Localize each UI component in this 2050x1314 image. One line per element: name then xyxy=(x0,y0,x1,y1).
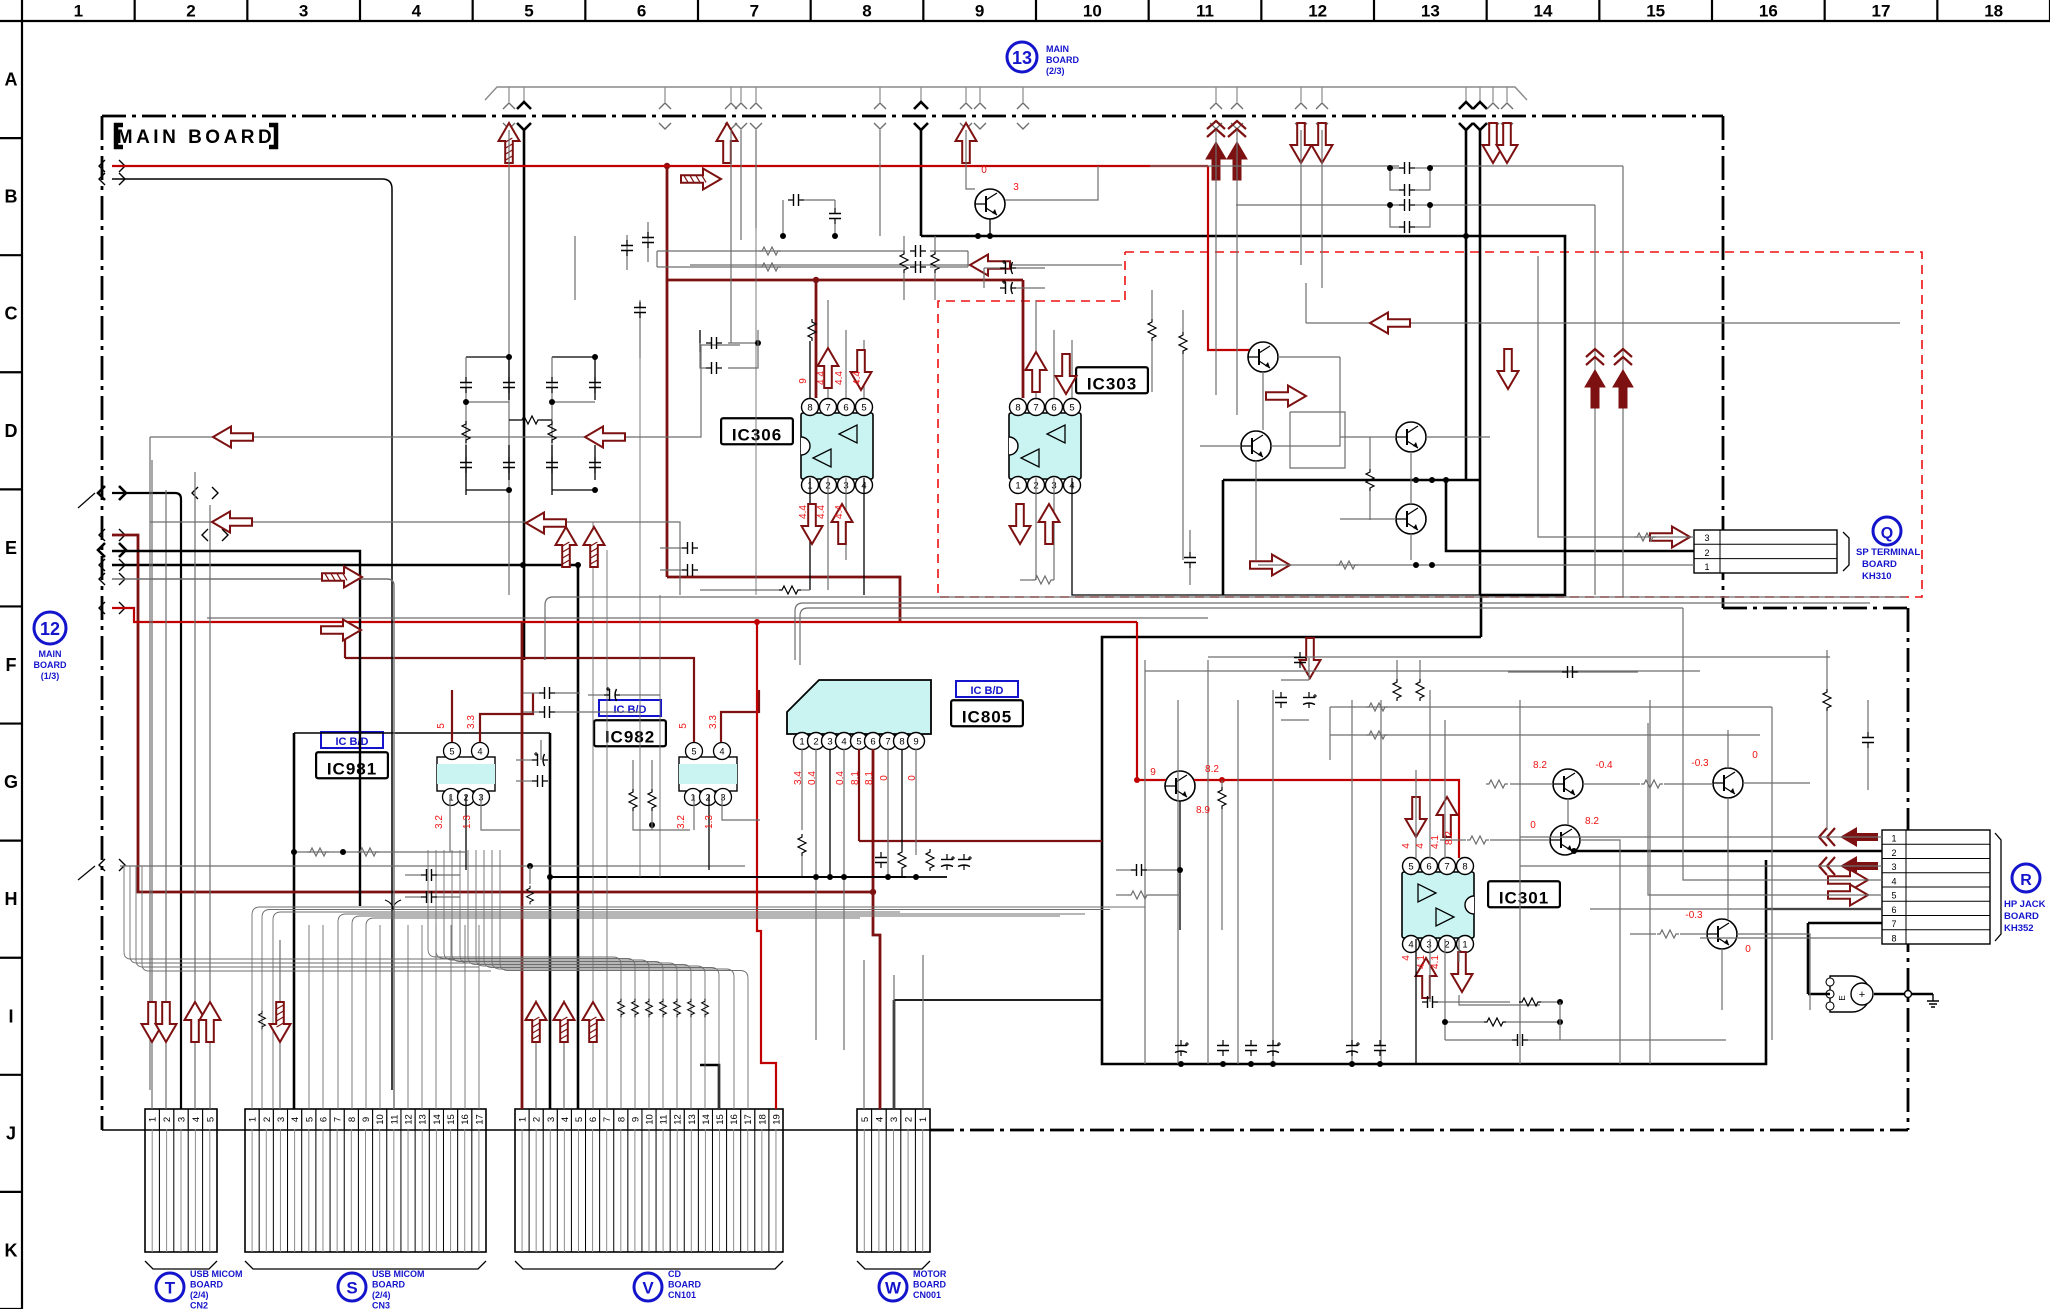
motor M xyxy=(1830,976,1870,1012)
svg-text:K: K xyxy=(5,1240,18,1260)
svg-text:9: 9 xyxy=(798,378,809,384)
svg-text:5: 5 xyxy=(1069,403,1074,414)
IC805 label xyxy=(956,681,1018,697)
svg-text:CN3: CN3 xyxy=(372,1301,390,1310)
gray vertical x392 xyxy=(112,179,392,1090)
ground xyxy=(1874,993,1908,996)
svg-text:H: H xyxy=(5,889,18,909)
svg-text:MOTOR: MOTOR xyxy=(913,1269,947,1279)
svg-text:8.2: 8.2 xyxy=(1585,816,1599,827)
wire T pin3 black xyxy=(112,493,181,1109)
svg-text:1: 1 xyxy=(518,1117,529,1122)
caps pairs col11 B row xyxy=(1399,162,1415,174)
svg-text:14: 14 xyxy=(701,1114,712,1125)
vertical links rows E-H xyxy=(606,550,608,940)
wire maroon long y892 xyxy=(112,535,873,892)
svg-text:IC B/D: IC B/D xyxy=(614,704,647,716)
svg-text:6: 6 xyxy=(1891,905,1896,915)
gray verticals from top connector xyxy=(508,130,510,595)
svg-text:5: 5 xyxy=(691,747,696,757)
svg-text:MAIN BOARD: MAIN BOARD xyxy=(117,127,276,148)
svg-text:16: 16 xyxy=(1759,2,1778,21)
svg-text:4.1: 4.1 xyxy=(1430,835,1441,849)
svg-text:17: 17 xyxy=(1872,2,1891,21)
connector R HP jack xyxy=(1882,830,1990,944)
gray long vertical x150 xyxy=(149,437,151,1090)
wire R row7 black xyxy=(1808,922,1882,925)
bus B (y957-971) feeding V connector xyxy=(428,850,621,1109)
IC303 label xyxy=(1076,367,1148,393)
svg-text:BOARD: BOARD xyxy=(34,660,67,670)
wire VCC black bus xyxy=(112,565,578,1109)
wire maroon IC805 pin6 xyxy=(872,749,875,892)
svg-text:3: 3 xyxy=(1704,533,1709,543)
svg-text:5: 5 xyxy=(1891,891,1896,901)
svg-text:13: 13 xyxy=(1012,48,1032,68)
svg-text:IC982: IC982 xyxy=(605,727,655,746)
svg-text:2: 2 xyxy=(1891,848,1896,858)
svg-text:4.1: 4.1 xyxy=(1430,955,1441,969)
IC306 label xyxy=(721,418,793,444)
svg-text:4.4: 4.4 xyxy=(798,505,809,519)
transistor B9 wiring xyxy=(966,130,975,189)
op-amp IC303 xyxy=(1009,413,1081,479)
caps column x429 xyxy=(421,869,437,881)
bus to S connector xyxy=(252,907,1145,1109)
svg-text:8: 8 xyxy=(347,1117,358,1122)
svg-text:IC306: IC306 xyxy=(732,425,782,444)
svg-text:8.2: 8.2 xyxy=(1205,764,1219,775)
wire black top 1466 xyxy=(1465,130,1468,480)
wire S pin4 black xyxy=(293,733,296,1109)
svg-text:-0.4: -0.4 xyxy=(1595,760,1613,771)
svg-text:1.3: 1.3 xyxy=(462,815,473,829)
wire maroon IC303 pin8 xyxy=(1022,280,1025,398)
wire gray y595 xyxy=(545,597,1906,660)
svg-text:9: 9 xyxy=(630,1117,641,1122)
svg-text:(1/3): (1/3) xyxy=(41,671,60,681)
svg-text:(2/4): (2/4) xyxy=(190,1290,209,1300)
wire maroon IC982 pin5 xyxy=(344,622,346,658)
svg-text:3.2: 3.2 xyxy=(676,815,687,829)
svg-text:2: 2 xyxy=(186,2,195,21)
svg-text:1: 1 xyxy=(448,793,453,803)
caps col7-8 B row xyxy=(782,200,784,236)
caps left of IC981 xyxy=(532,752,548,766)
V pin extra verticals xyxy=(592,940,594,1109)
svg-text:E: E xyxy=(5,538,17,558)
gray verticals in amp block xyxy=(1144,660,1146,1064)
caps pair col8 y258/278 pol xyxy=(1000,260,1016,274)
main board outline xyxy=(102,115,1723,118)
svg-text:8: 8 xyxy=(1015,403,1020,414)
wire gray y579 xyxy=(112,579,394,1109)
transistor xyxy=(1248,342,1278,372)
svg-text:4: 4 xyxy=(1408,940,1413,951)
connector S label xyxy=(338,1273,366,1301)
svg-text:T: T xyxy=(165,1279,176,1298)
svg-text:1.3: 1.3 xyxy=(704,815,715,829)
wire red drop x1208 xyxy=(1208,166,1249,350)
svg-text:KH310: KH310 xyxy=(1862,571,1892,582)
capacitor filter block xyxy=(466,356,509,358)
svg-text:17: 17 xyxy=(743,1114,754,1125)
arrows above V xyxy=(526,1002,547,1042)
connector S CN3 xyxy=(245,1109,486,1252)
svg-text:1: 1 xyxy=(74,2,83,21)
svg-text:IC B/D: IC B/D xyxy=(971,685,1004,697)
top connector pins xyxy=(508,87,510,102)
wire maroon to y622 xyxy=(667,577,900,622)
svg-text:16: 16 xyxy=(729,1114,740,1125)
wire gray y866 from left chevron xyxy=(120,865,745,867)
svg-text:11: 11 xyxy=(389,1115,400,1125)
svg-text:1: 1 xyxy=(1891,834,1896,844)
svg-text:6: 6 xyxy=(318,1117,329,1122)
svg-text:5: 5 xyxy=(861,403,866,414)
transistor xyxy=(1553,769,1583,799)
Q1 feed xyxy=(1258,564,1694,566)
svg-text:4: 4 xyxy=(719,747,724,757)
svg-text:BOARD: BOARD xyxy=(372,1280,405,1290)
wire maroon V pin1 xyxy=(521,660,524,1109)
wire black from top pin 524 xyxy=(523,130,526,660)
svg-text:9: 9 xyxy=(361,1117,372,1122)
wire V pin3 black xyxy=(549,733,552,1109)
connector 13 to main board 2/3 xyxy=(485,87,1527,100)
svg-text:5: 5 xyxy=(678,723,689,729)
gray horizontals upper amp area xyxy=(1208,656,1830,658)
svg-text:8: 8 xyxy=(899,737,904,748)
svg-text:3: 3 xyxy=(276,1117,287,1122)
svg-text:14: 14 xyxy=(432,1114,443,1125)
svg-text:6: 6 xyxy=(1426,862,1431,873)
svg-text:1: 1 xyxy=(1015,481,1020,492)
svg-text:4.4: 4.4 xyxy=(852,371,863,385)
resistor row above IC306 xyxy=(808,319,816,341)
B row center caps net xyxy=(639,300,641,358)
svg-text:5: 5 xyxy=(449,747,454,757)
IC982 bottom wires xyxy=(693,795,695,830)
wire black top 1480 xyxy=(1479,130,1482,595)
svg-text:4.4: 4.4 xyxy=(816,371,827,385)
signal arrows below top connector xyxy=(499,123,520,163)
op-amp IC306 xyxy=(801,413,873,479)
caps above IC982 xyxy=(539,687,555,699)
connector W label xyxy=(879,1273,907,1301)
transistor xyxy=(1396,504,1426,534)
svg-text:2: 2 xyxy=(813,737,818,748)
transistor xyxy=(1550,825,1580,855)
svg-text:IC303: IC303 xyxy=(1087,374,1137,393)
svg-text:HP JACK: HP JACK xyxy=(2004,899,2046,910)
svg-text:-0.3: -0.3 xyxy=(1685,910,1703,921)
svg-text:10: 10 xyxy=(645,1114,656,1125)
connector T label xyxy=(156,1273,184,1301)
svg-text:4.4: 4.4 xyxy=(834,505,845,519)
wire black bus y236 xyxy=(921,236,1565,637)
svg-text:1: 1 xyxy=(1704,562,1709,572)
svg-text:4: 4 xyxy=(290,1117,301,1122)
MAIN BOARD title xyxy=(116,125,123,147)
solid arrows wires going down xyxy=(1594,392,1596,595)
svg-text:3.4: 3.4 xyxy=(793,771,804,785)
Q3 feed xyxy=(1538,256,1694,537)
svg-text:17: 17 xyxy=(474,1114,485,1125)
svg-text:0: 0 xyxy=(1745,944,1751,955)
svg-text:Q: Q xyxy=(1881,525,1893,542)
svg-text:12: 12 xyxy=(404,1114,415,1125)
svg-text:3: 3 xyxy=(177,1117,188,1122)
wire maroon W pin4 xyxy=(873,892,880,1109)
resistors under IC805 pins xyxy=(801,749,803,830)
wire E row gray xyxy=(150,522,680,595)
IC301 pin verticals xyxy=(1415,770,1417,858)
wire red drop to Q1 transistor xyxy=(1137,622,1166,780)
svg-text:8: 8 xyxy=(1891,933,1896,943)
svg-text:18: 18 xyxy=(1984,2,2003,21)
svg-text:CD: CD xyxy=(668,1269,681,1279)
wire V pin15 black xyxy=(700,1065,719,1109)
caps on ground bus xyxy=(1175,1040,1189,1056)
svg-text:0: 0 xyxy=(879,775,890,781)
svg-text:2: 2 xyxy=(904,1117,915,1122)
svg-text:6: 6 xyxy=(637,2,646,21)
gray line y323 xyxy=(1305,283,1307,323)
transistor xyxy=(1241,431,1271,461)
svg-text:4: 4 xyxy=(1401,955,1412,961)
svg-text:E: E xyxy=(1838,995,1847,1000)
svg-text:4.4: 4.4 xyxy=(834,371,845,385)
svg-text:BOARD: BOARD xyxy=(2004,911,2039,922)
svg-text:4: 4 xyxy=(1401,843,1412,849)
wire maroon y841 xyxy=(859,840,1102,842)
caps res under IC301 xyxy=(1422,996,1438,1008)
wire maroon IC981 pin4 xyxy=(480,693,533,742)
res caps col16 xyxy=(1823,689,1831,711)
wire red rail y622 xyxy=(112,608,1137,622)
svg-text:1: 1 xyxy=(248,1117,259,1122)
svg-text:7: 7 xyxy=(1891,919,1896,929)
resistor pair between blocks xyxy=(519,416,541,424)
brace junction xyxy=(385,900,401,910)
W gray pins xyxy=(863,960,865,1109)
svg-text:9: 9 xyxy=(913,737,918,748)
svg-text:2: 2 xyxy=(262,1117,273,1122)
caps top right pair wiring xyxy=(1150,165,1399,167)
svg-text:W: W xyxy=(885,1279,902,1298)
regulator IC982 xyxy=(679,757,737,791)
svg-text:1: 1 xyxy=(1462,940,1467,951)
svg-text:(2/4): (2/4) xyxy=(372,1290,391,1300)
power amp IC805 xyxy=(787,680,931,734)
svg-text:G: G xyxy=(4,772,18,792)
wire D row gray xyxy=(150,345,740,437)
svg-text:BOARD: BOARD xyxy=(913,1280,946,1290)
svg-text:3: 3 xyxy=(827,737,832,748)
wire red main rail y166 xyxy=(112,165,1208,167)
svg-text:3: 3 xyxy=(299,2,308,21)
svg-text:8: 8 xyxy=(1462,862,1467,873)
svg-text:I: I xyxy=(8,1006,13,1026)
regulator IC981 xyxy=(437,757,495,791)
svg-text:13: 13 xyxy=(1421,2,1440,21)
svg-text:0: 0 xyxy=(1530,820,1536,831)
caps x1125 row H xyxy=(1131,864,1147,876)
wire maroon IC981 pin5 xyxy=(451,690,453,742)
svg-text:F: F xyxy=(6,655,17,675)
resistors x630-660 under IC805 xyxy=(629,789,637,811)
svg-text:0.4: 0.4 xyxy=(807,771,818,785)
svg-text:R: R xyxy=(2020,872,2032,889)
svg-text:7: 7 xyxy=(333,1117,344,1122)
wire gray R row3 xyxy=(1520,865,1882,867)
wire maroon supply from x667 xyxy=(666,166,669,577)
svg-text:5: 5 xyxy=(436,723,447,729)
svg-text:13: 13 xyxy=(687,1114,698,1125)
cap row B col8-9 y258-297 xyxy=(657,250,905,252)
IC982 label xyxy=(599,700,661,716)
svg-text:2: 2 xyxy=(1704,548,1709,558)
center caps y300 xyxy=(626,235,628,270)
svg-text:6: 6 xyxy=(1051,403,1056,414)
motor feed wire xyxy=(1808,993,1830,996)
svg-text:3: 3 xyxy=(1891,862,1896,872)
svg-text:12: 12 xyxy=(1308,2,1327,21)
svg-text:15: 15 xyxy=(446,1114,457,1125)
connector W CN001 xyxy=(857,1109,930,1252)
svg-text:8: 8 xyxy=(862,2,871,21)
wire red V pin19 xyxy=(757,622,776,1109)
wire gray y608 long xyxy=(207,617,1208,619)
svg-text:10: 10 xyxy=(1083,2,1102,21)
svg-text:2: 2 xyxy=(532,1117,543,1122)
svg-text:3.2: 3.2 xyxy=(434,815,445,829)
res pair col 13 in amp xyxy=(1393,679,1401,701)
svg-text:7: 7 xyxy=(1033,403,1038,414)
wire gray R row1 xyxy=(1520,836,1882,838)
svg-text:D: D xyxy=(5,421,18,441)
caps near IC805 left xyxy=(544,689,546,691)
svg-text:IC981: IC981 xyxy=(327,759,377,778)
wire amp block frame xyxy=(1102,637,1766,1064)
wire R row6 black xyxy=(1766,908,1882,910)
svg-text:8.9: 8.9 xyxy=(1196,805,1210,816)
wire gray R row6 xyxy=(1590,908,1882,910)
svg-text:3.3: 3.3 xyxy=(708,715,719,729)
svg-text:7: 7 xyxy=(825,403,830,414)
IC306 bottom pin wires xyxy=(809,478,811,590)
upper-right transistor pair wiring xyxy=(1510,783,1553,785)
svg-text:11: 11 xyxy=(659,1115,670,1125)
svg-text:7: 7 xyxy=(750,2,759,21)
svg-text:4.4: 4.4 xyxy=(816,505,827,519)
transistor 9/8.2 emitter xyxy=(1179,801,1181,930)
svg-text:7: 7 xyxy=(602,1117,613,1122)
svg-text:2: 2 xyxy=(705,793,710,803)
svg-text:MAIN: MAIN xyxy=(39,649,62,659)
svg-text:4: 4 xyxy=(560,1117,571,1122)
gray feed T pins xyxy=(151,460,153,1109)
svg-text:IC301: IC301 xyxy=(1499,888,1549,907)
svg-text:S: S xyxy=(346,1279,357,1298)
svg-text:BOARD: BOARD xyxy=(1046,55,1079,65)
svg-text:4: 4 xyxy=(841,737,846,748)
wire maroon drop x1216 xyxy=(1215,130,1217,395)
svg-text:V: V xyxy=(642,1279,654,1298)
svg-text:3: 3 xyxy=(1426,940,1431,951)
HP jack signal arrows xyxy=(1819,827,1878,847)
svg-text:4: 4 xyxy=(477,747,482,757)
connector V CN101 xyxy=(515,1109,783,1252)
svg-text:CN101: CN101 xyxy=(668,1290,696,1300)
connector T CN2 xyxy=(145,1109,217,1252)
svg-text:5: 5 xyxy=(205,1117,216,1122)
svg-text:9: 9 xyxy=(975,2,984,21)
transistor xyxy=(1713,768,1743,798)
svg-text:IC805: IC805 xyxy=(962,707,1012,726)
svg-text:8: 8 xyxy=(616,1117,627,1122)
svg-text:4: 4 xyxy=(874,1117,885,1122)
bus B left feeders xyxy=(124,866,455,959)
gray loop rect near IC303 transistors xyxy=(1290,412,1345,468)
svg-text:BOARD: BOARD xyxy=(190,1280,223,1290)
wire black top 921 xyxy=(920,130,923,236)
svg-text:4: 4 xyxy=(1891,876,1896,886)
arrow above S pin3 xyxy=(270,1002,291,1042)
svg-text:BOARD: BOARD xyxy=(1862,559,1897,570)
svg-text:BOARD: BOARD xyxy=(668,1280,701,1290)
svg-text:0: 0 xyxy=(981,165,987,176)
E row caps right xyxy=(1184,552,1196,568)
svg-text:USB MICOM: USB MICOM xyxy=(190,1269,243,1279)
caps above amp xyxy=(1294,652,1306,668)
svg-text:+: + xyxy=(1859,989,1865,1001)
svg-text:5: 5 xyxy=(856,737,861,748)
gray line with left arrow y265 xyxy=(690,264,1122,266)
svg-text:(2/3): (2/3) xyxy=(1046,66,1065,76)
svg-text:12: 12 xyxy=(673,1114,684,1125)
svg-text:J: J xyxy=(6,1123,16,1143)
svg-text:5: 5 xyxy=(304,1117,315,1122)
red dashed boundary xyxy=(938,252,1922,597)
IC303 pin wires xyxy=(1035,300,1037,398)
svg-text:1: 1 xyxy=(799,737,804,748)
svg-text:KH352: KH352 xyxy=(2004,923,2034,934)
svg-text:3: 3 xyxy=(546,1117,557,1122)
svg-text:3.3: 3.3 xyxy=(466,715,477,729)
svg-text:0.4: 0.4 xyxy=(835,771,846,785)
border frame rulers xyxy=(22,20,2050,22)
svg-text:14: 14 xyxy=(1534,2,1553,21)
svg-text:7: 7 xyxy=(885,737,890,748)
connector Q SP terminal xyxy=(1694,530,1837,573)
svg-text:C: C xyxy=(5,304,18,324)
svg-text:CN001: CN001 xyxy=(913,1290,941,1300)
svg-text:18: 18 xyxy=(757,1114,768,1125)
IC981 bottom wires xyxy=(449,795,451,852)
wire maroon IC306 pin8 xyxy=(815,280,818,398)
caps under col5 E row xyxy=(682,564,698,576)
svg-text:6: 6 xyxy=(843,403,848,414)
svg-text:4.1: 4.1 xyxy=(1416,955,1427,969)
wire gray R row5 xyxy=(1648,723,1882,895)
wire maroon IC982 pin4 xyxy=(721,690,759,742)
svg-text:13: 13 xyxy=(418,1114,429,1125)
svg-text:12: 12 xyxy=(40,619,60,639)
svg-text:MAIN: MAIN xyxy=(1046,44,1069,54)
svg-text:1: 1 xyxy=(148,1117,159,1122)
